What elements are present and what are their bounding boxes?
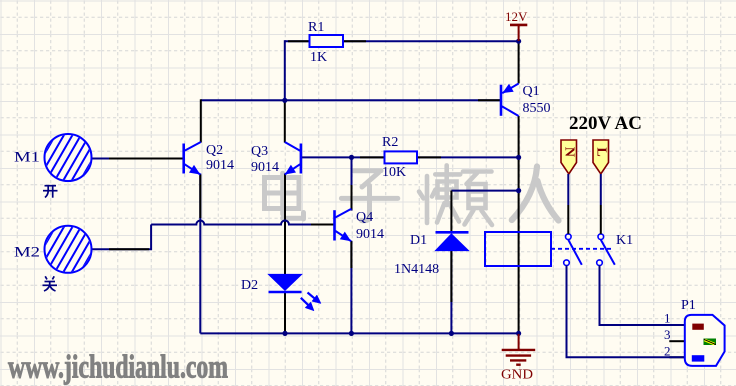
junction node A (R1 left / Q2-Q3 collectors / Q1 base) — [282, 98, 287, 103]
wire: Q3 collector vertical — [284, 100, 286, 142]
wire: M1 to Q2 base — [92, 158, 184, 160]
wire: N terminal to switch — [567, 174, 569, 205]
svg-text:M1: M1 — [14, 150, 40, 166]
wire: top rail from R1 area to 12V — [285, 40, 519, 42]
resistor R2 — [382, 135, 417, 180]
junction ground rail at GND — [516, 331, 521, 336]
wire: D1 vertical top — [450, 191, 452, 232]
junction D2 at ground rail — [282, 331, 287, 336]
touch plate M1 — [14, 132, 117, 184]
svg-text:D2: D2 — [241, 278, 258, 293]
svg-text:Q4: Q4 — [356, 210, 373, 225]
relay coil box — [485, 232, 551, 266]
svg-text:10K: 10K — [382, 165, 406, 180]
transistor Q1 (PNP) — [501, 84, 551, 117]
svg-text:Q3: Q3 — [251, 144, 268, 159]
junction D1 anode at ground rail — [449, 331, 454, 336]
touch plate M2 — [14, 223, 117, 275]
wire: M2 to rail corner — [92, 225, 152, 250]
svg-text:L: L — [593, 147, 608, 156]
svg-text:8550: 8550 — [523, 101, 551, 116]
transistor Q2 — [184, 142, 234, 175]
label 开 (kai) — [43, 186, 58, 198]
wire: node A horizontal rail to Q1 base — [201, 99, 501, 101]
wire: D1 anode down to bottom rail — [450, 250, 452, 333]
wire: L switch down to P1 pin1 — [600, 266, 685, 326]
watermark text dian zi lan ren — [265, 165, 559, 225]
connector P1 — [664, 298, 725, 366]
svg-text:12V: 12V — [505, 9, 528, 24]
junction at 12V node — [516, 39, 521, 44]
svg-text:Q1: Q1 — [523, 84, 540, 99]
wire: R2-left node down to Q4 collector — [351, 157, 353, 210]
svg-text:3: 3 — [664, 327, 671, 342]
svg-text:N: N — [561, 147, 576, 157]
junction D1 branch at Q1 collector line — [516, 188, 521, 193]
wire: Q3 emitter vertical down to D2 — [284, 174, 286, 275]
wire: Q1 collector down through relay to bottom rail — [518, 116, 520, 333]
wire: L terminal to switch — [600, 174, 602, 205]
relay switch K1 — [551, 233, 633, 266]
wire: D1 branch horizontal — [451, 190, 518, 192]
svg-text:R2: R2 — [382, 135, 398, 150]
label 关 (guan) — [43, 276, 58, 291]
svg-text:K1: K1 — [616, 233, 633, 248]
wire: Q2 emitter vertical down to bottom rail — [199, 174, 201, 334]
svg-text:R1: R1 — [308, 20, 324, 35]
wire: Q4 emitter down to bottom rail — [350, 241, 352, 334]
svg-text:1K: 1K — [310, 50, 327, 65]
svg-text:GND: GND — [501, 368, 533, 383]
resistor R1 — [308, 20, 343, 65]
svg-text:P1: P1 — [681, 298, 696, 313]
wire: vertical from R1-left corner down to node A — [284, 40, 286, 100]
svg-text:9014: 9014 — [206, 158, 234, 173]
terminal N — [561, 140, 577, 174]
wire: Q3 base to R2 and R2 to Q1 collector line — [301, 156, 519, 158]
junction Q4 emitter at ground rail — [349, 331, 354, 336]
diode D1 — [394, 232, 469, 277]
svg-text:Q2: Q2 — [206, 143, 223, 158]
wire: M2 rail to Q4 base with hops — [151, 221, 334, 225]
wire: N switch down to P1 pin2 — [567, 266, 685, 358]
wire: Q2 collector vertical — [200, 99, 202, 142]
svg-text:2: 2 — [664, 344, 671, 359]
power 12V — [505, 9, 528, 41]
transistor Q3 (mirrored) — [251, 142, 301, 175]
junction Q3 base / R2 / Q4 collector — [349, 155, 354, 160]
svg-text:9014: 9014 — [356, 227, 384, 242]
svg-text:9014: 9014 — [251, 160, 279, 175]
ground GND — [501, 334, 535, 383]
wire: P1 pin3 stub — [669, 340, 684, 342]
svg-text:M2: M2 — [14, 245, 40, 261]
svg-text:D1: D1 — [410, 233, 427, 248]
svg-text:220V AC: 220V AC — [569, 113, 642, 134]
svg-text:1N4148: 1N4148 — [394, 262, 439, 277]
junction R2 right at Q1 collector line — [516, 155, 521, 160]
wire: D2 cathode to bottom rail — [284, 292, 286, 333]
wire: bottom ground rail — [200, 332, 518, 334]
terminal L — [593, 140, 609, 174]
LED D2 — [241, 274, 321, 310]
transistor Q4 — [335, 209, 385, 242]
svg-text:www.jichudianlu.com: www.jichudianlu.com — [8, 349, 228, 385]
svg-text:1: 1 — [664, 311, 671, 326]
wire: black pin stubs — [109, 41, 684, 357]
wire: 12V node down Q1 emitter — [518, 41, 520, 83]
